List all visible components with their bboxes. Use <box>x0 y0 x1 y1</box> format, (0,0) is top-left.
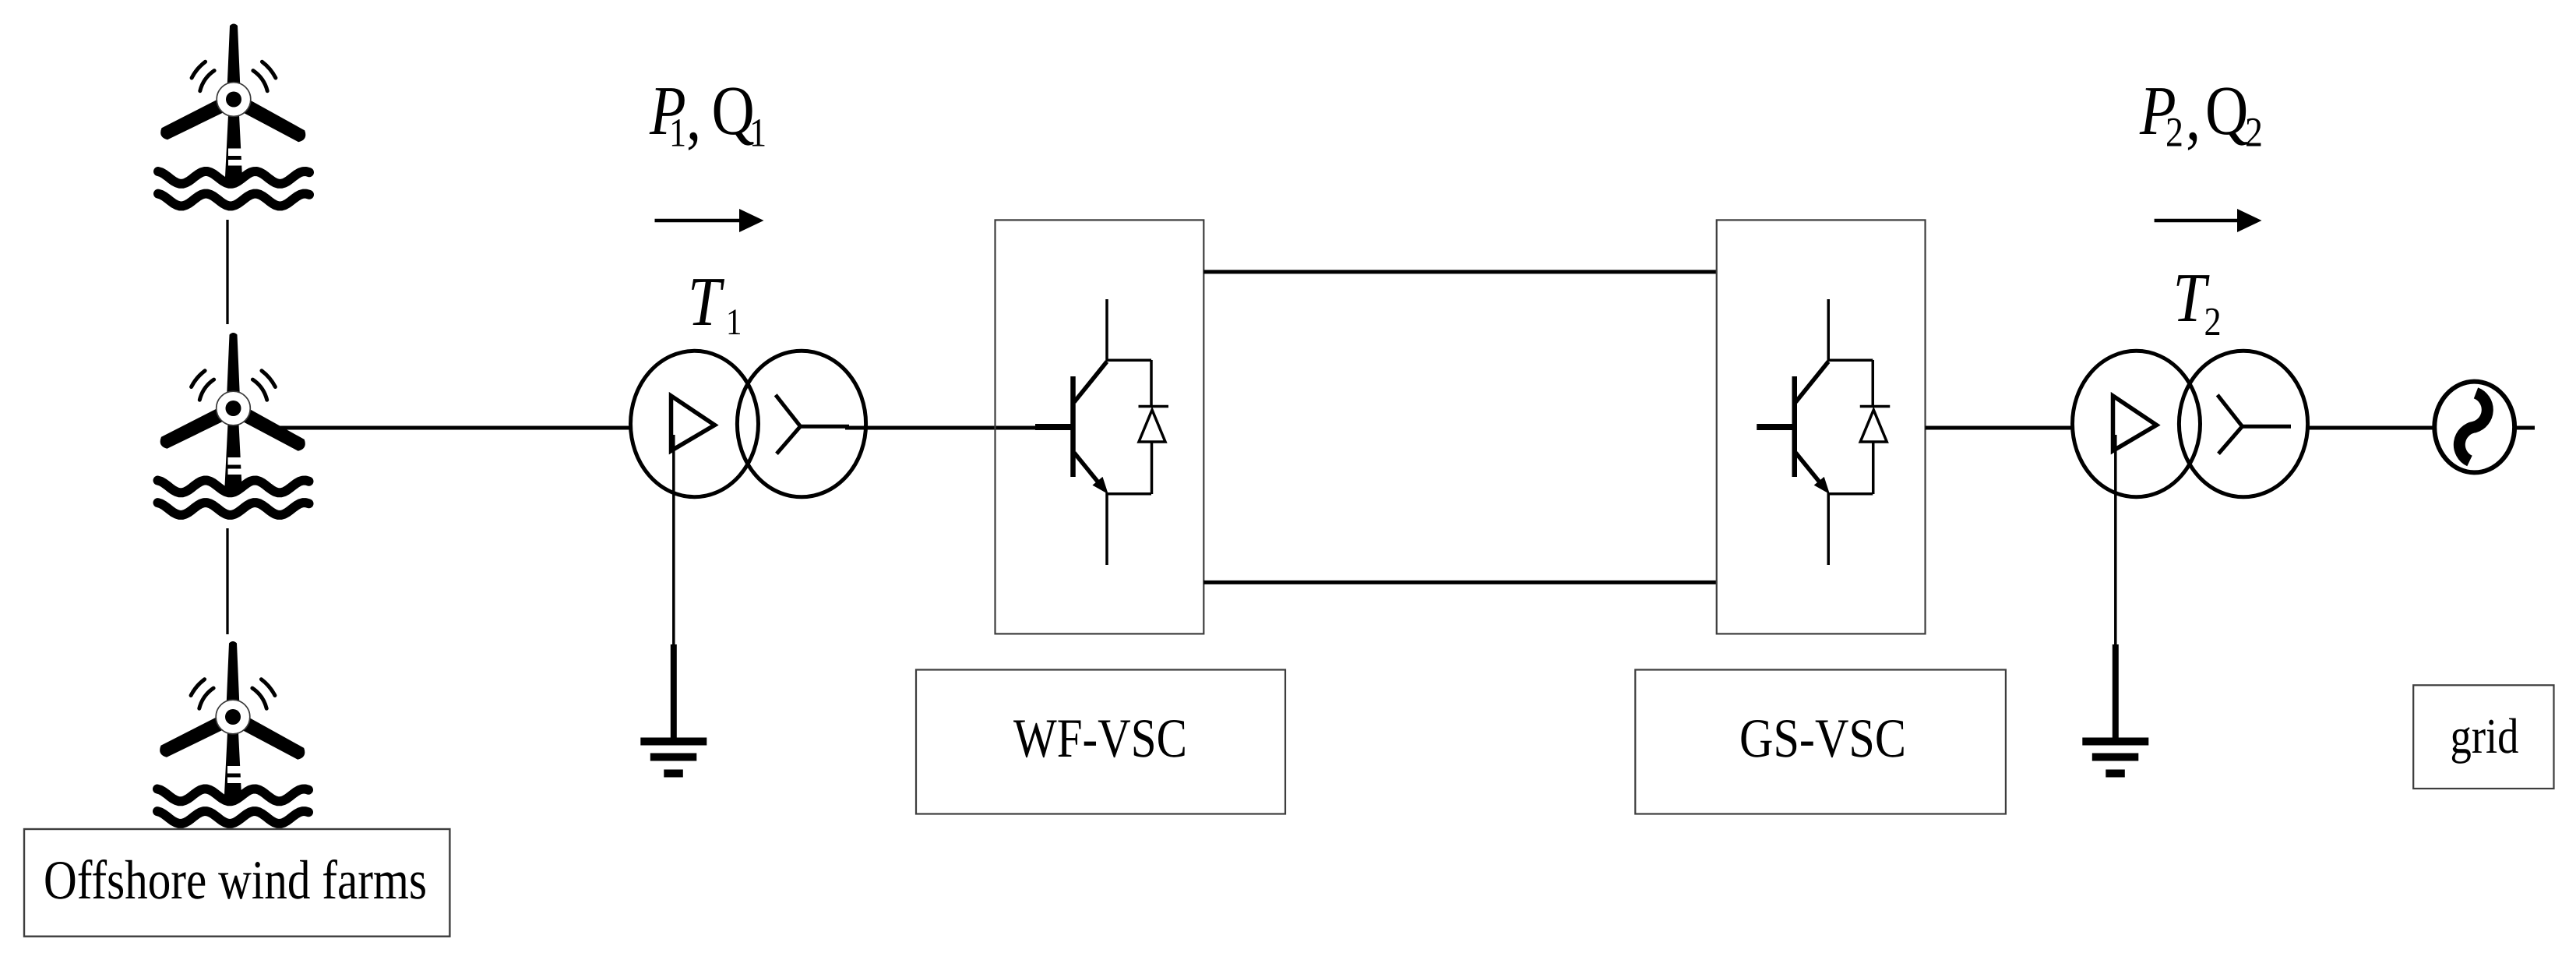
wind turbine WT3 <box>157 641 308 824</box>
wire GS-VSC to T2 <box>1926 426 2074 430</box>
arrow P1Q1 <box>655 209 764 232</box>
IGBT + diode GS <box>1757 299 1890 565</box>
wire WT2-WT3 <box>226 528 228 634</box>
wire DC- <box>1203 581 1716 584</box>
label box GS-VSC <box>1635 670 2006 814</box>
wire T1 neutral <box>672 435 675 645</box>
svg-text:T: T <box>688 263 725 341</box>
wind turbine WT1 <box>158 24 309 206</box>
ground GND1 <box>640 644 707 778</box>
svg-text:1: 1 <box>749 111 766 156</box>
wind turbine WT2 <box>157 333 308 515</box>
svg-text:WF-VSC: WF-VSC <box>1013 708 1187 769</box>
svg-text:1: 1 <box>669 111 686 156</box>
label box grid <box>2413 685 2553 789</box>
transformer T1 <box>631 351 866 497</box>
svg-text:Q: Q <box>712 72 755 150</box>
arrow P2Q2 <box>2155 209 2262 232</box>
svg-text:2: 2 <box>2204 300 2222 344</box>
label T2 <box>2173 259 2222 344</box>
wire WT1-WT2 <box>226 220 228 324</box>
label box Offshore wind farms <box>24 829 449 937</box>
ground GND2 <box>2082 644 2148 778</box>
label T1 <box>688 263 742 343</box>
wire T2 to grid <box>2308 426 2435 430</box>
svg-text:1: 1 <box>726 302 742 343</box>
wire DC+ <box>1203 270 1716 274</box>
wire T2 neutral <box>2114 435 2117 645</box>
wire T1 to WF-VSC <box>845 426 1036 430</box>
svg-text:Offshore wind farms: Offshore wind farms <box>44 850 427 911</box>
svg-text:,: , <box>2186 78 2201 155</box>
IGBT + diode WF <box>1035 299 1168 565</box>
svg-text:2: 2 <box>2245 109 2263 156</box>
svg-text:2: 2 <box>2165 109 2183 156</box>
label box WF-VSC <box>916 670 1285 814</box>
AC grid source G <box>2434 382 2514 473</box>
wire WT2 to T1 <box>274 426 632 430</box>
wire grid stub <box>2514 426 2535 430</box>
svg-text:,: , <box>686 78 701 155</box>
transformer T2 <box>2073 351 2308 497</box>
svg-text:Q: Q <box>2205 72 2248 150</box>
converter box GS-VSC <box>1717 220 1926 634</box>
label P1,Q1 <box>649 72 766 156</box>
converter box WF-VSC <box>996 220 1204 634</box>
svg-text:grid: grid <box>2451 708 2519 764</box>
label P2,Q2 <box>2139 72 2263 156</box>
svg-text:GS-VSC: GS-VSC <box>1739 708 1906 769</box>
